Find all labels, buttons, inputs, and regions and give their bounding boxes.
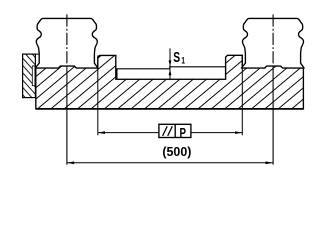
right rail (guideway) xyxy=(241,18,304,68)
left clamp bar (sectioned, opposite hatch) xyxy=(23,54,39,98)
svg-text:1: 1 xyxy=(181,56,185,66)
svg-text:P: P xyxy=(180,127,187,141)
feature control frame // P xyxy=(159,124,191,140)
right rail centerline xyxy=(272,14,274,164)
(500) dimension line xyxy=(67,162,273,164)
S1 label xyxy=(173,49,185,66)
svg-text:S: S xyxy=(173,49,180,66)
left rail (guideway) xyxy=(35,18,98,68)
wear strip in trough xyxy=(117,67,226,79)
base bottom edge (heavier) xyxy=(36,108,304,110)
parallelism dimension line xyxy=(98,132,159,134)
S1 leader xyxy=(169,48,172,79)
base bed block (sectioned, hatched) xyxy=(36,55,304,109)
parallelism dimension extension lines xyxy=(97,55,99,135)
left rail centerline xyxy=(66,14,68,164)
svg-text:(500): (500) xyxy=(162,145,191,159)
